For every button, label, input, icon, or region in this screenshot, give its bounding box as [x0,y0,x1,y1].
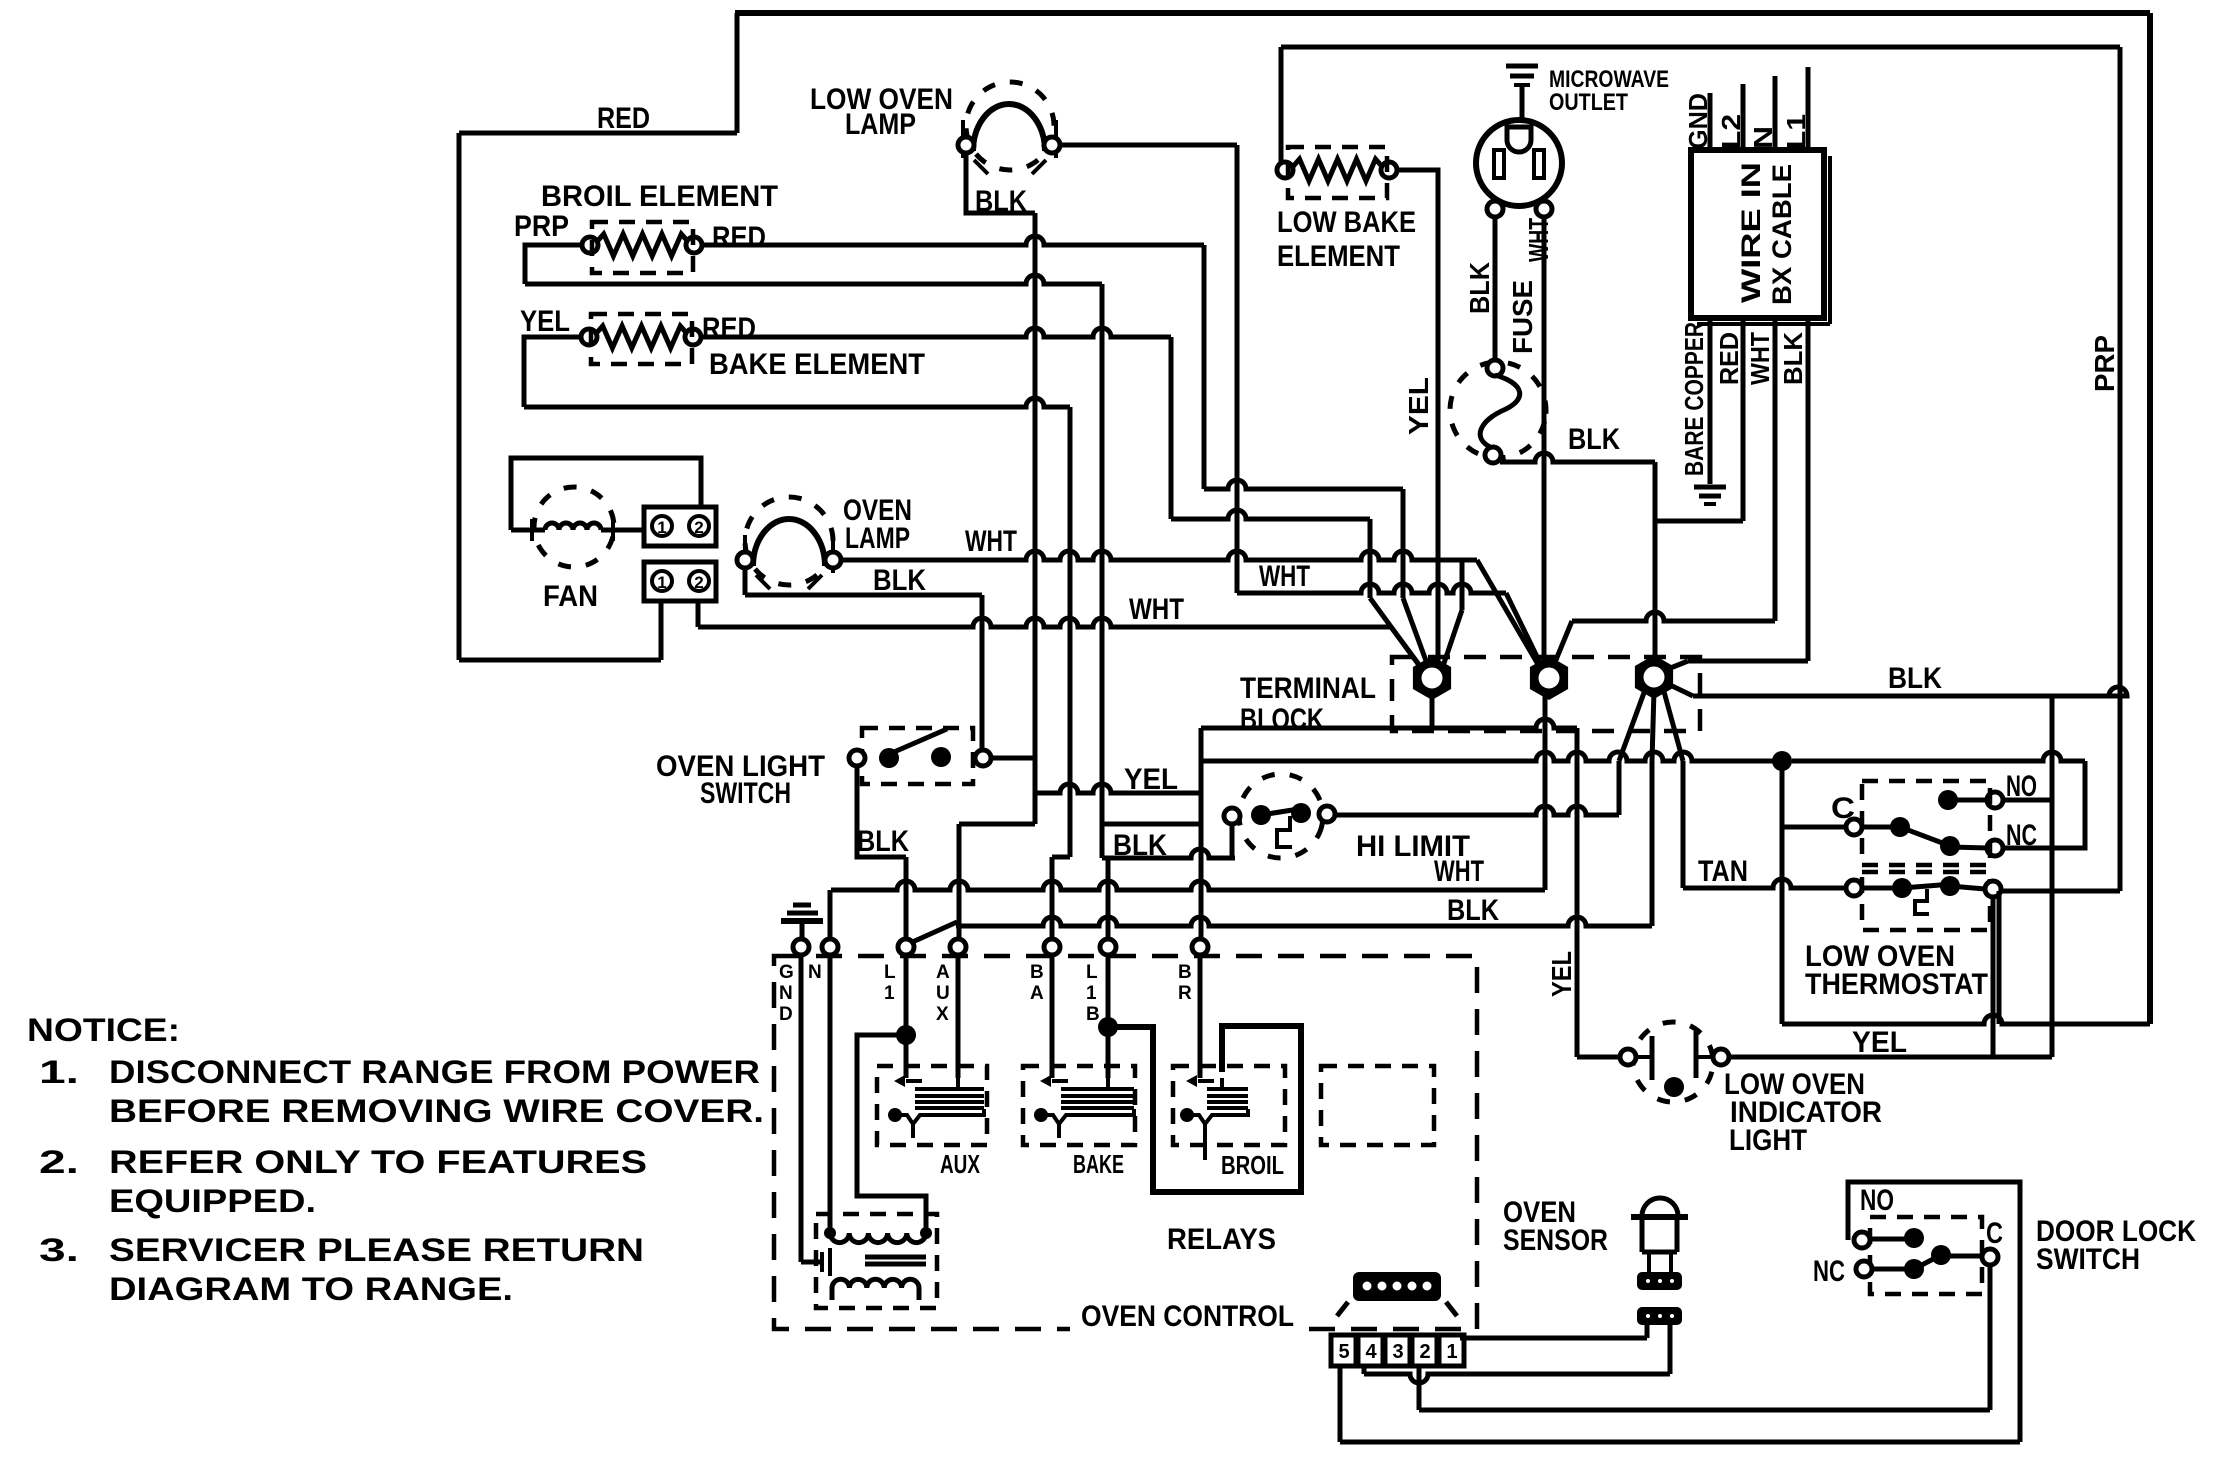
outlet: microwave outlet body [1476,120,1562,206]
svg-text:L2: L2 [1716,114,1746,149]
outlet: ground pin [1507,127,1531,152]
terminal: indicator left [1620,1049,1636,1065]
lamp: oven lamp ticks [745,535,833,589]
svg-text:REFER ONLY TO FEATURES: REFER ONLY TO FEATURES [109,1144,647,1180]
wire: thermostat loop right [1997,891,2002,1024]
label: LOW OVEN / INDICATOR / LIGHT [1724,1068,1882,1157]
label: OVEN CONTROL [1070,1300,1305,1336]
wire: WHT BX slant into T2 [1553,621,1572,667]
terminal: oven control pins [793,939,1208,955]
label: AUX [940,1149,980,1179]
label: notice item2 [39,1144,647,1180]
svg-text:A: A [1030,983,1044,1004]
wire: low bake left riser [1279,47,1284,170]
wire: low bake to YEL drop [1396,170,1438,672]
wire: N stub [1773,76,1778,150]
box: broil element dashed [592,222,693,273]
label: TERMINAL / BLOCK [1240,672,1376,736]
wire: bake run y519 [1171,510,1370,519]
box: oven light switch dashed [862,728,973,784]
svg-text:5: 5 [1338,1341,1349,1363]
wire: sensor pin5 run [1340,1366,2020,1442]
svg-text:SWITCH: SWITCH [2036,1243,2140,1276]
label: L2 (rotated) [1716,114,1746,149]
sensor: flange [1631,1214,1688,1220]
svg-text:DISCONNECT RANGE FROM POWER: DISCONNECT RANGE FROM POWER [109,1054,760,1090]
svg-text:BLK: BLK [1447,894,1499,927]
svg-text:SWITCH: SWITCH [700,777,791,810]
terminal: outlet left [1487,201,1503,217]
svg-text:YEL: YEL [1852,1026,1907,1059]
sensor: bulb dome [1642,1198,1678,1216]
resistor: broil element [594,234,691,256]
svg-text:BROIL ELEMENT: BROIL ELEMENT [541,180,778,213]
label: N (rotated) [1748,126,1778,149]
relay: BROIL symbol [1180,1075,1248,1160]
wire: pole2 right drop [1991,896,1996,1057]
wire: HI LIMIT feed y858 [1102,849,1235,858]
label: BROIL ELEMENT [541,180,778,213]
outlet: slot left [1494,150,1504,178]
wire: TAN vertical [1681,761,1686,888]
wire: TAN drop from T3 [1663,688,1683,761]
wire: BR vertical [1199,728,1204,940]
svg-text:NOTICE:: NOTICE: [27,1012,180,1048]
label: control pin names [779,962,1192,1025]
ground: control ground symbol [781,905,823,921]
wire: BA pin drop [1050,954,1055,1078]
svg-text:G: G [779,962,794,983]
label: notice item1 [39,1054,760,1090]
lamp: low oven lamp ticks [963,120,1056,174]
wire: L1 to transformer [857,1035,926,1233]
relay: BAKE symbol [1034,1075,1134,1138]
wire: BLK BX slant into T3 [1663,661,1688,671]
terminal: broil left [582,237,598,253]
terminal: bake right [685,329,701,345]
sensor: stem [1649,1252,1671,1272]
terminal: fuse top [1487,360,1503,376]
svg-text:PRP: PRP [514,210,569,243]
wire: BLK y926 riser to T3 [1650,761,1655,926]
box: door lock dashed [1870,1217,1982,1294]
svg-text:OUTLET: OUTLET [1549,89,1628,116]
label: BLK (switch) [857,825,909,858]
wire: slant into T2 (from 1506) [1506,593,1543,669]
label: WHT (y627) [1129,593,1184,626]
svg-text:WHT: WHT [1259,560,1310,593]
wire: outlet ground stem [1520,85,1525,121]
switch: thermostat pole1 [1862,817,1988,856]
svg-text:OVEN CONTROL: OVEN CONTROL [1081,1300,1294,1333]
thermostat: pole2 hook [1915,889,1929,914]
wire: NC branch [2003,761,2085,848]
terminal: broil right [686,237,702,253]
svg-text:YEL: YEL [1403,377,1434,435]
wire: L1 drop [904,954,909,1035]
svg-text:1: 1 [884,983,895,1004]
svg-text:C: C [1986,1217,2003,1250]
wire: YEL drop from y728 [1575,728,1580,1057]
indicator: dashed circle [1625,1014,1722,1111]
dot: L1B junction [1098,1017,1118,1037]
wire: L1B U-route [1108,1026,1301,1192]
wire: fan conn2 pin1 riser [659,597,664,660]
svg-text:B: B [1030,962,1044,983]
wire: left vertical (RED to fan) [457,133,462,660]
svg-text:BLK: BLK [975,185,1027,218]
wire: AUX pin drop [956,954,961,1078]
wire: AUX riser [957,824,962,940]
switch: thermostat pole2 [1846,876,2001,898]
coil: fan coil [511,519,643,541]
label: notice item3b [109,1271,513,1307]
label: MICROWAVE OUTLET [1549,66,1669,116]
svg-text:X: X [936,1004,949,1025]
box: low bake dashed [1288,147,1387,198]
label: LOW OVEN / THERMOSTAT [1805,940,1988,1001]
wire: BLK BX drop [1806,318,1811,661]
svg-text:RED: RED [1714,332,1744,385]
fuse: S-curve [1480,375,1520,448]
wire: bake RED drop [1169,337,1174,519]
wire: BLK y815 riser to T3 [1617,761,1622,815]
box: relay BROIL dashed [1173,1066,1285,1145]
svg-text:WHT: WHT [965,525,1017,558]
svg-text:THERMOSTAT: THERMOSTAT [1805,968,1988,1001]
label: WIRE IN / BX CABLE (rotated) [1736,162,1797,305]
box: thermostat pole2 dashed [1862,872,1990,930]
box: thermostat pole1 dashed [1862,781,1990,865]
terminal: thermostat C [1846,819,1862,835]
svg-text:N: N [1748,126,1778,149]
label: BLK (hi-limit feed) [1113,829,1167,862]
box: fan enclosure [511,458,701,530]
wire: L1 stub [1806,67,1811,150]
svg-text:BARE COPPER: BARE COPPER [1679,322,1709,476]
svg-text:NO: NO [1860,1184,1894,1217]
svg-text:BROIL: BROIL [1221,1150,1284,1180]
svg-text:2.: 2. [39,1144,79,1180]
wire: diag into T1 (from 1462) [1441,610,1462,672]
wire: conn2 pin2 WHT run y627 [698,601,1391,627]
box: relay spare dashed [1321,1066,1434,1145]
wire: NO inner line [1948,798,1988,803]
connector: fan conn1 pin1 [652,516,672,537]
wire: BLK NO run [1693,687,2127,696]
svg-text:1: 1 [1086,983,1097,1004]
wire: T1 to BR run y728 [1201,719,1577,728]
label: RELAYS [1167,1223,1276,1256]
label: BLK (left long) [1447,894,1499,927]
terminal: oven lamp left [737,552,753,568]
wire: right border (RED run) [2147,13,2153,1024]
svg-text:BLK: BLK [1568,423,1620,456]
wire: outlet WHT drop [1542,216,1547,668]
wire: low lamp right drop [1235,145,1240,593]
svg-text:NO: NO [2006,770,2037,803]
terminal: block T3 [1635,655,1673,699]
wire: NO connect [2003,798,2052,803]
wire: N riser [828,890,833,940]
svg-text:N: N [779,983,793,1004]
wire: door lock NO loop [1848,1182,2020,1442]
svg-text:BLOCK: BLOCK [1240,703,1324,736]
lamp: low oven lamp dome [973,104,1045,151]
label: NOTICE heading [27,1012,180,1048]
wire: BR pin drop [1198,954,1203,1078]
label: YEL (rotated) [1403,377,1434,435]
resistor: low bake element [1290,159,1385,181]
svg-text:FAN: FAN [543,580,598,613]
svg-text:2: 2 [694,518,703,537]
wire: slant into T2 (from 1477) [1477,560,1543,673]
label: WHT (BX, rotated) [1745,332,1775,385]
svg-text:L: L [1086,962,1098,983]
terminal: bake left [581,329,597,345]
label: PRP (rotated) [2089,335,2120,392]
wire: TAN run [1683,879,1847,888]
ground: microwave outlet ground [1506,66,1538,85]
terminal: block T1 [1413,656,1451,700]
wire: oven lamp left drop [743,567,748,595]
wire: broil loop bottom [525,275,1102,284]
svg-text:RED: RED [597,102,650,135]
terminal: low bake right [1381,162,1397,178]
connector: fan conn2 pin2 [689,571,709,592]
svg-text:BLK: BLK [1888,662,1942,695]
wire: AUX riser top link [1033,793,1038,824]
label: BAKE ELEMENT [709,348,925,381]
connector: fan conn2 box [644,562,716,601]
svg-text:BLK: BLK [1464,262,1495,314]
label: RED (broil) [712,221,766,254]
wire: BLK long y926 [956,917,1652,926]
wire: L1B into BAKE [1106,1027,1111,1078]
sensor: plug block [1353,1272,1441,1301]
svg-text:L: L [884,962,896,983]
dot: primary right [920,1227,932,1239]
wire: N drop [828,954,833,1233]
wire: branch to thermostat C [1782,825,1847,830]
svg-text:D: D [779,1004,793,1025]
wire: ground stem [800,921,805,940]
label: L1 (rotated) [1781,114,1811,149]
wire: top border (RED run) [735,10,2150,16]
wire: BLK run to switch drop [745,593,982,598]
svg-text:A: A [936,962,950,983]
wire: WHT BX run to T2 [1572,612,1775,621]
wire: branch to RED y521 [1655,519,1743,524]
wire: T1 bottom drop [1430,686,1435,728]
wire: GND lead [801,954,820,1262]
svg-text:BLK: BLK [1113,829,1167,862]
svg-text:4: 4 [1365,1341,1377,1363]
label: NO (door) [1860,1184,1894,1217]
svg-text:TAN: TAN [1698,855,1748,888]
svg-text:YEL: YEL [1124,763,1178,796]
wire: indicator inner ticks [1636,1055,1713,1059]
svg-text:RELAYS: RELAYS [1167,1223,1276,1256]
svg-text:2: 2 [1419,1341,1430,1363]
label: notice item2b [109,1183,316,1219]
label: FAN [543,580,598,613]
indicator: electrodes [1652,1031,1696,1097]
svg-text:WHT: WHT [1523,218,1554,262]
svg-text:FUSE: FUSE [1507,280,1538,354]
label: RED [597,102,650,135]
terminal: block T2 [1530,656,1568,700]
wire: broil RED run [701,236,1204,245]
label: RED (BX, rotated) [1714,332,1744,385]
connector: fan conn1 box [644,507,716,546]
coil: secondary [832,1279,919,1288]
wire: bake drop to BA [1052,407,1070,940]
terminal: indicator right [1713,1049,1729,1065]
terminal: low lamp right [1044,137,1060,153]
wire: L1B pin drop [1106,954,1111,1027]
outlet: slot right [1534,150,1544,178]
wire: PRP vertical right side [2118,47,2123,891]
wire: BLK drop to T3 [1653,462,1658,664]
resistor: bake element [593,326,690,348]
wire: YEL/common run y761 [1201,752,1782,761]
wire: drop toward T1 (x1370) [1368,519,1373,598]
label: YEL (y793) [1124,763,1178,796]
svg-text:1.: 1. [39,1054,79,1090]
terminal: low bake left [1277,162,1293,178]
wire: sensor pin4 run [1364,1325,1670,1383]
sensor: block2 [1637,1307,1682,1325]
label: YEL [520,305,570,338]
wire: T2 drop [1543,686,1548,890]
label: GND (rotated) [1683,93,1713,149]
label: PRP [514,210,569,243]
wire: bare copper drop [1708,318,1713,484]
label: TAN [1698,855,1748,888]
label: OVEN LAMP [843,494,912,555]
svg-text:B: B [1086,1004,1100,1025]
wire: L2 stub [1741,84,1746,150]
wire: L1B riser [1106,858,1111,940]
svg-text:SENSOR: SENSOR [1503,1224,1608,1257]
svg-text:3: 3 [1392,1341,1403,1363]
label: RED (bake) [702,312,756,345]
svg-text:EQUIPPED.: EQUIPPED. [109,1183,316,1219]
label: BLK (fuse, rotated) [1464,262,1495,314]
label: BAKE [1073,1149,1124,1179]
lamp: oven lamp dome [753,519,825,566]
label: YEL (bottom) [1852,1026,1907,1059]
wire: low lamp left drop [966,152,1035,213]
wire: fan bottom horizontal [459,658,661,663]
terminal: NC contact [1987,840,2003,856]
wire: GND stub [1708,93,1713,150]
wire: BLK BX run to T3 [1688,659,1808,664]
switch: oven light switch [849,729,991,768]
wire: C drop [1988,1264,1993,1410]
connector: 54321 row [1331,1335,1464,1366]
wire: drop toward T1 (x1403) [1401,489,1406,598]
svg-text:TERMINAL: TERMINAL [1240,672,1376,705]
svg-text:AUX: AUX [940,1149,980,1179]
wire: WHT BX drop [1773,318,1778,621]
hilimit: actuator hook [1277,816,1292,847]
label: BARE COPPER (rotated) [1679,322,1709,476]
box: wire-in-BX-cable [1691,150,1830,324]
svg-text:N: N [808,962,822,983]
svg-text:LIGHT: LIGHT [1729,1124,1807,1157]
sensor: body [1642,1217,1677,1252]
svg-text:BAKE ELEMENT: BAKE ELEMENT [709,348,925,381]
label: NC [2006,819,2037,852]
svg-text:BLK: BLK [1778,332,1808,385]
svg-text:WHT: WHT [1745,332,1775,385]
relay: AUX symbol [888,1075,984,1138]
svg-text:HI LIMIT: HI LIMIT [1356,830,1470,863]
label: FUSE (rotated) [1507,280,1538,354]
svg-text:GND: GND [1683,93,1713,149]
wire: broil drop [1100,284,1105,858]
svg-text:WIRE IN: WIRE IN [1736,162,1766,303]
switch: door lock [1854,1228,1998,1279]
transformer: dashed box [816,1214,937,1308]
svg-text:2: 2 [694,573,703,592]
coil: primary [830,1233,926,1243]
svg-text:WHT: WHT [1129,593,1184,626]
wire: WHT run y593 [1237,584,1506,593]
svg-text:ELEMENT: ELEMENT [1277,240,1400,273]
wire: BLK T3-NO diag [1668,684,1693,696]
wire: RED run riser to junction [1780,761,1785,1024]
connector: fan conn2 pin1 [652,571,672,592]
wire: BLK y815 from hi-limit [1334,806,1619,815]
wire: inner top horizontal [1281,45,2120,50]
svg-text:BLK: BLK [873,564,926,597]
dot: primary left [824,1227,836,1239]
wire: cross connect y824 [1102,822,1199,827]
wire: diag into T1 (from 1403) [1403,598,1429,669]
svg-text:BEFORE REMOVING WIRE COVER.: BEFORE REMOVING WIRE COVER. [109,1093,764,1129]
terminal: outlet right [1536,201,1552,217]
wire: sensor pin1 run [1460,1325,1647,1338]
wire: bake RED run [700,328,1171,337]
dot: L1 junction [896,1025,916,1045]
wire: fuse BLK run [1500,453,1655,462]
svg-text:BLK: BLK [857,825,909,858]
sensor: block1 [1637,1272,1682,1290]
svg-text:RED: RED [712,221,766,254]
svg-text:NC: NC [2006,819,2037,852]
svg-text:RED: RED [702,312,756,345]
wire: BLK vertical center [1033,213,1038,758]
wire: hi limit left drop [1230,824,1235,858]
svg-text:SERVICER PLEASE RETURN: SERVICER PLEASE RETURN [109,1232,644,1268]
wire: sensor pin2 run [1419,1366,1990,1410]
wire: YEL to indicator [1577,1055,1620,1060]
wire: L1-AUX diagonal [908,922,957,944]
label: C (thermostat) [1831,792,1855,825]
box: oven control dashed [774,956,1477,1329]
hilimit: dashed circle [1230,765,1332,867]
wire: RED run bottom right [1782,1015,2150,1024]
label: BLK (NO) [1888,662,1942,695]
label: NC (door) [1813,1255,1845,1288]
wire: BLK drop to switch right [980,595,985,758]
wire: T3 lower diag b [1652,690,1654,761]
svg-text:BX CABLE: BX CABLE [1767,164,1797,305]
wire: L1 riser [904,857,909,940]
